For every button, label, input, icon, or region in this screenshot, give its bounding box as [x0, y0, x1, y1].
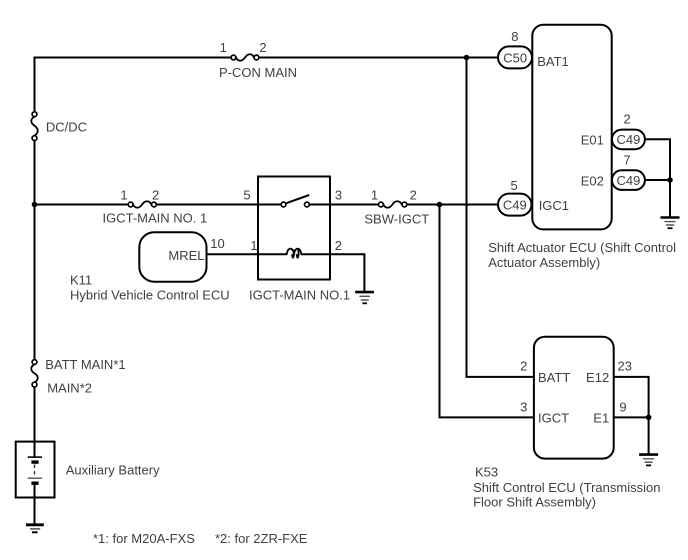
- wire left vertical (top to DC/DC): [34, 57, 36, 115]
- wire SBW junction down to K53 IGCT pin 3: [440, 205, 534, 418]
- svg-text:DC/DC: DC/DC: [46, 120, 87, 135]
- ECU Shift Actuator box: [488, 25, 676, 270]
- wire middle rail (relay pin 3 to SBW-IGCT): [307, 204, 381, 206]
- svg-text:C49: C49: [616, 132, 640, 147]
- svg-text:E12: E12: [586, 370, 609, 385]
- svg-text:E01: E01: [581, 133, 604, 148]
- svg-text:Actuator Assembly): Actuator Assembly): [488, 255, 600, 270]
- relay contact right terminal: [305, 202, 310, 207]
- ground below relay coil: [355, 292, 374, 303]
- wire battery box top to plate: [34, 442, 36, 458]
- wire battery plate to ground: [34, 483, 36, 525]
- junction dot E1 net: [646, 415, 652, 421]
- svg-text:IGCT-MAIN NO. 1: IGCT-MAIN NO. 1: [103, 211, 208, 226]
- svg-text:Hybrid Vehicle Control ECU: Hybrid Vehicle Control ECU: [70, 287, 230, 302]
- battery plate short thick: [31, 460, 38, 463]
- junction dot at left middle rail: [32, 202, 38, 208]
- wire middle rail (junction to fuse): [35, 204, 131, 206]
- wire left vertical (DC/DC to BATT MAIN fuse): [34, 138, 36, 362]
- junction dot at top rail x=466.5: [464, 55, 470, 61]
- svg-text:2: 2: [152, 188, 159, 203]
- svg-text:2: 2: [410, 188, 417, 203]
- wire E12 to ground vertical: [614, 377, 649, 455]
- junction dot E02 net: [667, 177, 673, 183]
- ECU K53 Shift Control box: [473, 337, 660, 510]
- connector C50 pin 8: [498, 29, 532, 68]
- svg-text:E1: E1: [593, 411, 609, 426]
- svg-text:10: 10: [210, 236, 224, 251]
- svg-text:Shift Actuator ECU (Shift Cont: Shift Actuator ECU (Shift Control: [488, 240, 676, 255]
- svg-text:2: 2: [259, 40, 266, 55]
- svg-text:MREL: MREL: [168, 248, 204, 263]
- wire top rail right segment: [257, 57, 501, 59]
- battery plate short thick bottom: [31, 482, 38, 485]
- connector C49 pin 5 (IGC1): [498, 178, 532, 216]
- svg-text:MAIN*2: MAIN*2: [47, 380, 92, 395]
- wire E02 to junction: [645, 179, 670, 181]
- relay contact blade: [286, 195, 309, 203]
- svg-text:P-CON MAIN: P-CON MAIN: [219, 65, 297, 80]
- svg-text:IGCT: IGCT: [538, 411, 569, 426]
- ground for K53 E1/E12: [639, 455, 658, 466]
- svg-text:K11: K11: [70, 273, 92, 288]
- svg-text:BATT MAIN*1: BATT MAIN*1: [45, 357, 125, 372]
- connector C49 pin 7 (E02): [612, 153, 645, 190]
- svg-text:E02: E02: [581, 173, 604, 188]
- fuse SBW-IGCT: [364, 188, 429, 227]
- svg-text:1: 1: [250, 238, 257, 253]
- wire MREL pin10 to relay coil pin 1: [207, 253, 288, 255]
- svg-text:BAT1: BAT1: [537, 54, 569, 69]
- svg-text:2: 2: [335, 238, 342, 253]
- svg-text:K53: K53: [475, 464, 498, 479]
- svg-text:C49: C49: [616, 173, 640, 188]
- svg-text:1: 1: [220, 40, 227, 55]
- svg-text:5: 5: [243, 188, 250, 203]
- ECU MREL box (K11): [70, 232, 230, 302]
- fuse P-CON MAIN: [219, 40, 297, 80]
- fuse BATT MAIN*1 / MAIN*2: [31, 357, 125, 395]
- svg-text:3: 3: [335, 188, 342, 203]
- svg-text:BATT: BATT: [538, 370, 570, 385]
- svg-text:SBW-IGCT: SBW-IGCT: [364, 212, 429, 227]
- svg-text:IGCT-MAIN NO.1: IGCT-MAIN NO.1: [249, 287, 350, 302]
- svg-text:Auxiliary Battery: Auxiliary Battery: [66, 463, 160, 478]
- battery plate long gray: [28, 477, 42, 479]
- svg-text:2: 2: [520, 359, 527, 374]
- svg-text:Floor Shift Assembly): Floor Shift Assembly): [473, 495, 596, 510]
- svg-text:7: 7: [623, 153, 630, 168]
- wire E01 to ground vertical: [645, 139, 670, 217]
- svg-text:C49: C49: [503, 197, 527, 212]
- svg-text:Shift Control ECU (Transmissio: Shift Control ECU (Transmission: [473, 480, 660, 495]
- wire middle rail (SBW-IGCT to C49 IGC1): [404, 204, 500, 206]
- svg-text:*1: for M20A-FXS: *1: for M20A-FXS: [93, 531, 195, 546]
- battery plate long top: [28, 456, 42, 458]
- fuse DC/DC: [31, 112, 87, 141]
- fuse IGCT-MAIN NO. 1: [103, 188, 208, 226]
- relay IGCT-MAIN NO.1 box: [243, 177, 350, 303]
- svg-text:5: 5: [510, 178, 517, 193]
- wire top rail left segment: [35, 57, 234, 59]
- svg-text:1: 1: [371, 188, 378, 203]
- svg-text:*2: for 2ZR-FXE: *2: for 2ZR-FXE: [215, 531, 308, 546]
- svg-text:2: 2: [623, 112, 630, 127]
- battery Auxiliary Battery: [16, 442, 160, 498]
- battery dashed link: [34, 465, 36, 478]
- connector C49 pin 2 (E01): [612, 112, 645, 150]
- junction dot after SBW-IGCT: [437, 202, 443, 208]
- svg-text:8: 8: [511, 29, 518, 44]
- relay coil: [287, 249, 301, 255]
- relay contact left terminal: [281, 202, 286, 207]
- svg-text:1: 1: [120, 188, 127, 203]
- svg-text:3: 3: [520, 399, 527, 414]
- wire top junction down to K53 BATT pin 2: [467, 58, 534, 377]
- ground for E01/E02: [661, 218, 680, 229]
- wire left vertical (fuse to battery): [34, 385, 36, 443]
- svg-text:IGC1: IGC1: [539, 198, 569, 213]
- svg-text:9: 9: [619, 399, 626, 414]
- wire E1 to junction: [614, 416, 649, 418]
- ground below battery: [26, 525, 44, 533]
- wire relay coil pin 2 to ground: [301, 254, 365, 292]
- svg-text:C50: C50: [503, 51, 527, 66]
- wire middle rail (fuse to relay pin 5): [154, 204, 284, 206]
- svg-text:23: 23: [618, 359, 632, 374]
